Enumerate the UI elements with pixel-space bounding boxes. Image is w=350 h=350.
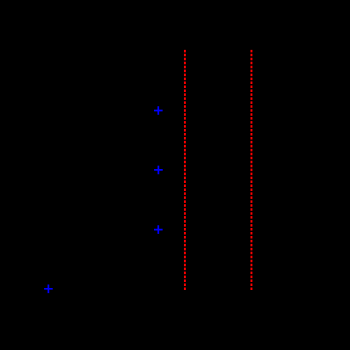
blue plus marker 2	[154, 166, 163, 175]
red dotted vertical line 2	[250, 50, 252, 290]
blue plus marker 1	[154, 106, 163, 115]
blue plus marker 3	[154, 225, 163, 234]
red dotted vertical line 1	[184, 50, 186, 290]
blue plus marker 4	[44, 285, 53, 294]
